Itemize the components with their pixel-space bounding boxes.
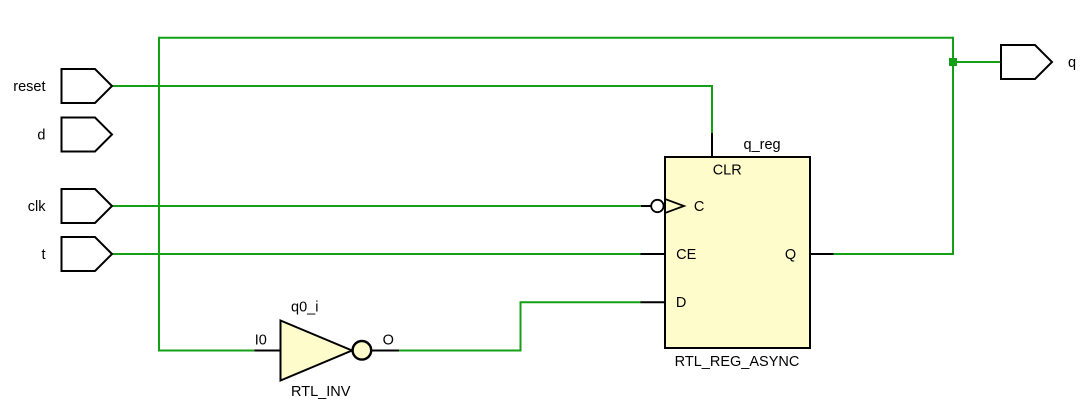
svg-text:q: q [1068,55,1076,71]
svg-text:t: t [41,247,45,263]
svg-text:D: D [676,295,686,311]
port clk [62,189,113,223]
svg-text:Q: Q [785,247,796,263]
pin stub I0 [255,350,281,352]
svg-text:reset: reset [13,79,45,95]
pin stub O [372,350,399,352]
junction square [949,58,957,66]
wire reset net [112,86,712,134]
svg-text:q_reg: q_reg [744,137,781,153]
inverter output bubble [353,341,372,360]
svg-text:CE: CE [676,247,696,263]
svg-text:CLR: CLR [713,163,742,179]
port t [62,237,113,271]
port q (output) [1001,45,1052,79]
svg-text:O: O [383,332,394,348]
wire clk net [112,205,642,207]
pin stub Q [810,253,834,255]
port reset [62,69,113,103]
svg-text:d: d [37,127,45,143]
pin stub CE [641,253,666,255]
wire Q output to right vertical [833,37,953,254]
pin stub D [641,301,666,303]
svg-text:q0_i: q0_i [291,299,318,315]
wire t net [112,253,642,255]
wire left feedback vertical [158,37,160,351]
clock triangle [666,199,685,213]
svg-text:clk: clk [28,199,46,215]
inverter U q0_i triangle [281,321,353,381]
clock input bubble [651,200,663,212]
register q_reg body [665,157,810,348]
wire feedback to inverter input [158,350,256,352]
pin stub CLR [711,133,713,157]
port d [62,118,113,152]
svg-text:I0: I0 [255,332,267,348]
wire inverter output to D [399,302,641,350]
svg-text:C: C [694,199,704,215]
wire top feedback horizontal [159,37,953,39]
svg-text:RTL_REG_ASYNC: RTL_REG_ASYNC [675,354,800,370]
wire junction to q port [953,61,1001,63]
svg-text:RTL_INV: RTL_INV [291,384,351,400]
pin stub C [641,205,652,207]
